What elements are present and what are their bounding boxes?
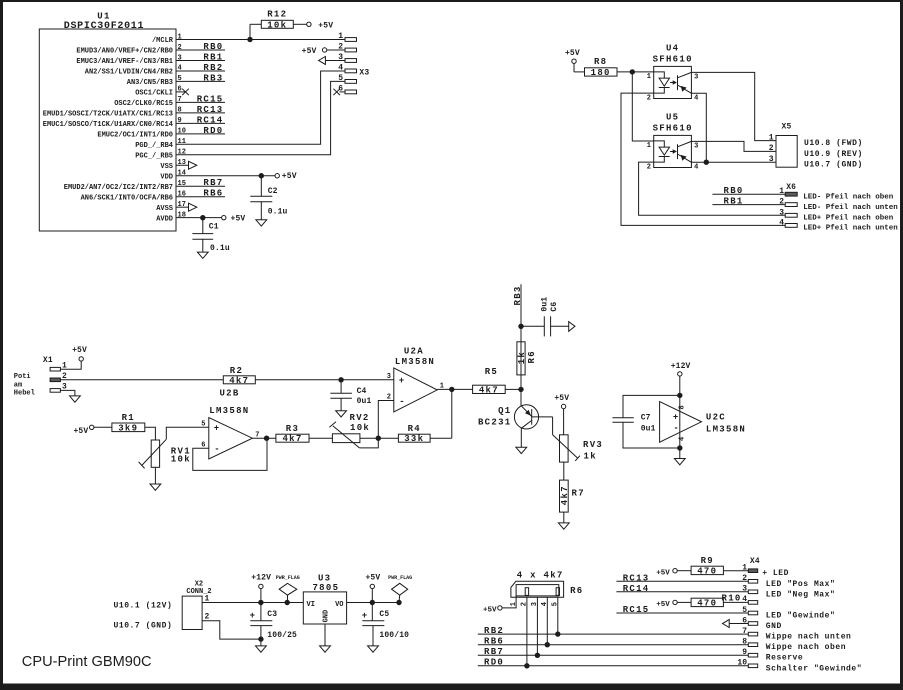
resistor R2 4k7: [223, 366, 341, 386]
ground below R7: [558, 523, 569, 529]
resistor R9 470: [691, 556, 748, 576]
svg-text:AN2/SS1/LVDIN/CN4/RB2: AN2/SS1/LVDIN/CN4/RB2: [85, 69, 173, 77]
svg-text:C4: C4: [357, 387, 367, 396]
regulator U3 7805: [303, 574, 346, 625]
svg-text:X5: X5: [782, 123, 792, 132]
svg-text:RV3: RV3: [583, 440, 603, 450]
svg-text:R1: R1: [122, 413, 135, 423]
capacitor C1 0.1u: [192, 218, 229, 254]
resistor R3 4k7: [276, 424, 333, 444]
wire U5.3 to X5.2: [691, 141, 776, 151]
title text: [22, 654, 152, 670]
+5V terminal at AVDD: [222, 214, 246, 223]
svg-text:LM358N: LM358N: [706, 425, 746, 435]
svg-text:+5V: +5V: [72, 346, 87, 355]
wire R6 to base: [520, 375, 522, 406]
svg-text:Hebel: Hebel: [14, 390, 35, 398]
svg-text:+: +: [399, 376, 404, 386]
svg-text:3: 3: [742, 585, 747, 594]
svg-text:R8: R8: [594, 57, 607, 67]
junction R2-C4: [338, 377, 343, 382]
svg-text:EMUC2/OC1/INT1/RD0: EMUC2/OC1/INT1/RD0: [97, 131, 173, 139]
svg-text:U4: U4: [666, 43, 679, 53]
net RC15 to X4.5: [616, 605, 748, 615]
+5V terminal at RV3: [554, 394, 569, 435]
svg-text:U2A: U2A: [404, 347, 424, 357]
wire U5.4 to X5.3: [691, 161, 776, 163]
svg-text:8: 8: [679, 405, 687, 409]
svg-text:10: 10: [178, 128, 186, 136]
svg-text:1: 1: [647, 73, 651, 81]
X5 pin 2: [769, 144, 774, 153]
wire U2B pin6 feedback: [193, 438, 267, 470]
svg-text:LM358N: LM358N: [209, 406, 249, 416]
svg-text:EMUC1/SOSCO/T1CK/U1ARX/CN0/RC1: EMUC1/SOSCO/T1CK/U1ARX/CN0/RC14: [43, 121, 173, 129]
connector X2 body: [182, 580, 211, 629]
svg-text:3: 3: [779, 208, 784, 217]
wire R4 to U2A out: [451, 389, 453, 438]
svg-text:R6: R6: [527, 350, 537, 363]
svg-text:EMUD2/AN7/OC2/IC2/INT2/RB7: EMUD2/AN7/OC2/IC2/INT2/RB7: [64, 184, 173, 192]
power flag PWR_FLAG 1: [276, 575, 300, 603]
net line RD0 to X4: [478, 658, 749, 668]
svg-text:U10.9 (REV): U10.9 (REV): [804, 150, 863, 159]
svg-text:RB0: RB0: [203, 42, 223, 52]
svg-text:+: +: [214, 424, 219, 434]
svg-text:13: 13: [178, 159, 186, 167]
svg-text:RB7: RB7: [484, 647, 504, 657]
svg-text:PGD_/_RB4: PGD_/_RB4: [135, 142, 173, 150]
svg-text:AN6/SCK1/INT0/OCFA/RB6: AN6/SCK1/INT0/OCFA/RB6: [81, 194, 173, 202]
svg-text:GND: GND: [766, 622, 782, 631]
capacitor C4 0u1: [330, 380, 371, 411]
svg-text:EMUC3/AN1/VREF-/CN3/RB1: EMUC3/AN1/VREF-/CN3/RB1: [76, 58, 173, 66]
U1 pin 13 VSS: [160, 159, 186, 171]
svg-text:0u1: 0u1: [357, 397, 372, 406]
svg-text:15: 15: [178, 180, 186, 188]
ground at X1.3: [60, 390, 80, 402]
svg-text:+5V: +5V: [554, 394, 569, 403]
svg-text:Q1: Q1: [498, 406, 511, 416]
svg-text:2: 2: [647, 163, 651, 171]
ground below U3: [320, 646, 331, 652]
svg-text:100/10: 100/10: [379, 631, 409, 640]
resistor network R6 4x4k7: [511, 571, 584, 598]
wire R6 pin 4 down: [546, 597, 548, 645]
R6 network pin 1 number: [510, 602, 518, 606]
svg-text:+5V: +5V: [483, 606, 497, 614]
junction C3 top: [258, 600, 263, 605]
svg-text:Wippe nach oben: Wippe nach oben: [766, 643, 846, 652]
svg-text:+5V: +5V: [656, 601, 670, 609]
junction PWR_FLAG 1: [285, 600, 290, 605]
wire Q1 collector to RV3 wiper: [553, 417, 580, 461]
wire VDD U1.14: [176, 175, 275, 177]
junction RV2-R4-U2Ainv: [376, 436, 381, 441]
net RC13 to X4.2: [616, 573, 748, 583]
optocoupler U5 SFH610: [647, 112, 699, 171]
trimmer RV2 10k: [329, 413, 378, 448]
svg-text:5: 5: [742, 606, 747, 615]
svg-text:R4: R4: [408, 424, 421, 434]
svg-text:0u1: 0u1: [541, 297, 550, 312]
svg-text:7: 7: [742, 627, 747, 636]
X3.3 port arrow: [319, 56, 345, 64]
+5V terminal bottom: [365, 574, 380, 603]
svg-text:SFH610: SFH610: [653, 54, 693, 64]
U1 pin 8 EMUD1/SOSCI/T2CK/U1ATX/CN1/RC13 net RC13: [43, 105, 225, 119]
net line RB2 to X4: [478, 626, 749, 636]
svg-text:4: 4: [742, 595, 747, 604]
capacitor C2 0.1u: [250, 176, 287, 220]
U1 pin 6 no-connect X: [176, 89, 189, 95]
ground below C2: [256, 220, 267, 226]
wire X2.2 to C3 bottom: [202, 613, 261, 640]
junction C3 bottom: [258, 636, 263, 641]
svg-text:+: +: [250, 611, 255, 621]
junction RB3-C6: [518, 324, 523, 329]
U1 pin 16 AN6/SCK1/INT0/OCFA/RB6 net RB6: [81, 189, 225, 203]
optocoupler U4 SFH610: [647, 43, 699, 102]
svg-text:6: 6: [178, 86, 182, 94]
svg-text:0.1u: 0.1u: [268, 208, 288, 217]
junction R6 pin 3: [535, 653, 540, 658]
X4 labels: [762, 569, 862, 673]
junction VDD-C2: [259, 173, 264, 178]
svg-text:+5V: +5V: [302, 47, 317, 56]
svg-text:VI: VI: [307, 601, 315, 609]
svg-text:4 x 4k7: 4 x 4k7: [517, 571, 564, 581]
svg-text:C3: C3: [267, 610, 277, 619]
X5 pin 3: [769, 155, 774, 164]
resistor R4 33k: [378, 424, 452, 444]
X2 labels: [114, 602, 173, 631]
wire U3 GND to ground: [324, 624, 326, 646]
svg-text:VDD: VDD: [160, 173, 173, 181]
svg-text:LM358N: LM358N: [395, 357, 435, 367]
svg-text:3: 3: [694, 143, 698, 151]
svg-text:X1: X1: [43, 356, 53, 365]
svg-text:OSC1/CKLI: OSC1/CKLI: [135, 90, 173, 98]
U1 pin 14 VDD: [160, 170, 186, 182]
svg-text:+5V: +5V: [318, 22, 333, 31]
svg-text:4: 4: [679, 437, 687, 441]
ground below C1: [197, 252, 208, 258]
svg-text:R12: R12: [267, 10, 287, 20]
svg-text:AVSS: AVSS: [156, 205, 173, 213]
net line RB7 to X4: [478, 647, 749, 657]
svg-text:3k9: 3k9: [118, 423, 138, 433]
svg-text:LED+ Pfeil nach unten: LED+ Pfeil nach unten: [803, 225, 898, 233]
svg-text:1k: 1k: [584, 451, 597, 461]
capacitor C5 100/10: [362, 603, 409, 646]
junction U2C V+: [677, 393, 682, 398]
U1 pin 11 PGD_/_RB4: [135, 138, 186, 150]
resistor R6 1k: [517, 342, 537, 375]
U1 pin 4 AN2/SS1/LVDIN/CN4/RB2 net RB2: [85, 63, 225, 77]
svg-text:3: 3: [387, 373, 391, 381]
svg-text:RB1: RB1: [203, 52, 223, 62]
resistor R1 3k9: [112, 413, 155, 440]
connector X5 body: [776, 123, 797, 168]
svg-text:3: 3: [769, 155, 774, 164]
svg-text:LED "Pos Max": LED "Pos Max": [766, 580, 836, 589]
svg-text:9: 9: [178, 117, 182, 125]
svg-text:Reserve: Reserve: [766, 654, 803, 663]
svg-text:4k7: 4k7: [560, 485, 570, 505]
connector X3 pads: [338, 32, 369, 94]
X5 pin 1: [769, 133, 774, 142]
svg-text:X4: X4: [750, 557, 760, 566]
svg-text:16: 16: [178, 191, 186, 199]
wire to U5 pin1: [632, 72, 653, 141]
svg-text:am: am: [14, 382, 22, 390]
svg-text:U2B: U2B: [219, 389, 239, 399]
svg-text:17: 17: [178, 201, 186, 209]
U1 pin 10 EMUC2/OC1/INT1/RD0 net RD0: [97, 126, 225, 140]
svg-text:+ LED: + LED: [762, 569, 789, 578]
svg-text:RB6: RB6: [484, 637, 504, 647]
svg-text:4: 4: [694, 95, 698, 103]
svg-text:LED+ Pfeil nach oben: LED+ Pfeil nach oben: [803, 215, 894, 223]
net line RB6 to X4: [478, 637, 749, 647]
svg-text:2: 2: [769, 144, 774, 153]
svg-text:C2: C2: [268, 187, 278, 196]
svg-text:-: -: [214, 445, 219, 455]
U1 pin 15 EMUD2/AN7/OC2/IC2/INT2/RB7 net RB7: [64, 178, 225, 192]
wire /MCLR from U1.1 to X3.1: [176, 39, 345, 41]
svg-text:SFH610: SFH610: [653, 123, 693, 133]
R6 network pin 4 number: [541, 602, 549, 606]
ground below U2C: [674, 459, 685, 465]
U1 pin 18 AVDD: [156, 211, 186, 223]
svg-text:R6: R6: [570, 586, 583, 596]
wire U3 VO to C5/flag: [347, 602, 399, 604]
svg-text:Schalter "Gewinde": Schalter "Gewinde": [766, 664, 862, 673]
svg-text:470: 470: [697, 566, 717, 576]
svg-text:10k: 10k: [350, 423, 370, 433]
svg-text:14: 14: [178, 170, 186, 178]
svg-text:OSC2/CLK0/RC15: OSC2/CLK0/RC15: [114, 100, 173, 108]
+5V terminal at R8: [565, 49, 585, 72]
U1 pin 12 PGC_/_RB5: [135, 149, 186, 161]
svg-text:1: 1: [647, 142, 651, 150]
resistor R12 10k: [250, 10, 307, 40]
wire X3.5 to U1.12 PGC: [176, 81, 345, 154]
svg-text:AVDD: AVDD: [156, 215, 173, 223]
svg-text:CPU-Print GBM90C: CPU-Print GBM90C: [22, 654, 152, 670]
U1 pin 3 EMUC3/AN1/VREF-/CN3/RB1 net RB1: [76, 52, 225, 66]
svg-text:1: 1: [742, 564, 747, 573]
junction R6 pin 5: [555, 631, 560, 636]
wire U2C power loop: [623, 395, 680, 448]
svg-text:EMUD3/AN0/VREF+/CN2/RB0: EMUD3/AN0/VREF+/CN2/RB0: [76, 48, 173, 56]
svg-text:PWR_FLAG: PWR_FLAG: [388, 575, 412, 581]
svg-text:100/25: 100/25: [267, 631, 297, 640]
svg-text:C5: C5: [379, 610, 389, 619]
wire X2.1 to U3 VI: [202, 594, 303, 603]
U1 pin 9 EMUC1/SOSCO/T1CK/U1ARX/CN0/RC14 net RC14: [43, 115, 225, 129]
svg-text:RC14: RC14: [197, 115, 224, 125]
ground below Q1: [516, 447, 527, 453]
wire U4.2 to X6.4: [621, 93, 785, 225]
svg-text:2: 2: [178, 44, 182, 52]
op-amp U2C LM358N: [660, 395, 747, 448]
junction PWR_FLAG 2: [396, 600, 401, 605]
svg-text:X6: X6: [786, 183, 796, 192]
svg-text:VO: VO: [335, 601, 343, 609]
wire U2C to ground: [679, 448, 681, 459]
svg-text:R2: R2: [230, 366, 243, 376]
svg-text:1: 1: [779, 187, 784, 196]
connector X4 pads: [737, 557, 759, 668]
U1 pin 17 AVSS port arrow: [176, 203, 197, 211]
svg-text:8: 8: [178, 107, 182, 115]
svg-text:+5V: +5V: [231, 214, 246, 223]
svg-text:4: 4: [694, 164, 698, 172]
capacitor C7 0u1: [612, 414, 655, 434]
wire X1.2 to R2: [60, 379, 223, 381]
svg-text:U3: U3: [318, 574, 331, 584]
svg-text:18: 18: [178, 211, 186, 219]
junction /MCLR-R12: [247, 37, 252, 42]
svg-text:-: -: [673, 423, 678, 433]
svg-text:8: 8: [742, 637, 747, 646]
junction C5 top: [370, 600, 375, 605]
+5V terminal at R6 pin1: [483, 596, 516, 614]
svg-text:1: 1: [178, 33, 182, 41]
transistor Q1 BC231: [478, 405, 553, 448]
svg-text:7: 7: [178, 96, 182, 104]
X3.6 no-connect X: [333, 89, 345, 95]
wire AVDD U1.18: [176, 217, 222, 219]
svg-text:RB2: RB2: [203, 63, 223, 73]
U1 pin 7 OSC2/CLK0/RC15 net RC15: [114, 94, 225, 108]
svg-text:+5V: +5V: [282, 172, 297, 181]
+5V terminal at X1.1: [60, 346, 87, 369]
op-amp U2B LM358N: [201, 389, 259, 460]
junction R6 pin 4: [545, 642, 550, 647]
svg-text:0.1u: 0.1u: [210, 244, 230, 253]
R6 network pin 2 number: [521, 602, 529, 606]
svg-text:LED "Neg Max": LED "Neg Max": [766, 590, 836, 599]
svg-text:RV2: RV2: [350, 413, 370, 423]
wire U2B output: [252, 437, 276, 439]
svg-text:4: 4: [779, 218, 784, 227]
svg-text:X3: X3: [359, 69, 369, 78]
svg-text:RC15: RC15: [197, 94, 224, 104]
IC U1 DSPIC30F2011 body: [39, 12, 176, 232]
svg-text:10k: 10k: [267, 20, 287, 30]
wire R6 pin 5 down: [557, 597, 559, 634]
svg-text:3: 3: [178, 54, 182, 62]
svg-text:U10.7 (GND): U10.7 (GND): [804, 161, 863, 170]
+12V terminal bottom: [251, 574, 271, 603]
svg-text:RD0: RD0: [203, 126, 223, 136]
svg-text:+5V: +5V: [73, 427, 88, 436]
svg-text:+: +: [362, 611, 367, 621]
svg-text:/MCLR: /MCLR: [152, 37, 174, 45]
wire R7 to ground: [563, 512, 565, 523]
ground below C4: [336, 411, 347, 417]
svg-text:2: 2: [742, 574, 747, 583]
ground below C5: [368, 646, 379, 652]
svg-text:RB6: RB6: [203, 189, 223, 199]
svg-text:PWR_FLAG: PWR_FLAG: [276, 575, 300, 581]
U1 pin 1 /MCLR: [152, 33, 182, 45]
net label RB0 to X6.1: [712, 186, 785, 196]
wire U2A output: [437, 388, 472, 390]
ground below RV1: [150, 484, 161, 490]
svg-text:+5V: +5V: [365, 574, 380, 583]
svg-text:LED- Pfeil nach unten: LED- Pfeil nach unten: [803, 204, 898, 212]
U1 pin 13 VSS port arrow: [176, 161, 197, 169]
resistor R5 4k7: [473, 367, 521, 395]
connector X1 pads: [43, 356, 67, 392]
power flag PWR_FLAG 2: [388, 575, 412, 603]
svg-text:Poti: Poti: [14, 373, 31, 381]
+5V terminal at R10: [656, 600, 691, 609]
svg-text:RC13: RC13: [197, 105, 224, 115]
resistor R8 180: [585, 57, 654, 78]
svg-text:RB7: RB7: [203, 178, 223, 188]
svg-text:10: 10: [737, 659, 747, 668]
svg-text:U10.8 (FWD): U10.8 (FWD): [804, 139, 863, 148]
wire X3.4 to U1.11 PGD: [176, 71, 345, 144]
U1 pin 5 AN3/CN5/RB3 net RB3: [127, 73, 225, 87]
svg-text:+12V: +12V: [251, 574, 271, 583]
svg-text:+5V: +5V: [565, 49, 580, 58]
svg-text:-: -: [399, 397, 404, 407]
svg-text:2: 2: [779, 198, 784, 207]
+5V terminal at R12: [307, 22, 334, 31]
svg-text:LED "Gewinde": LED "Gewinde": [766, 611, 836, 620]
svg-text:3: 3: [694, 74, 698, 82]
svg-text:R3: R3: [286, 424, 299, 434]
connector X6 pads: [779, 183, 797, 228]
op-amp U2A LM358N: [387, 347, 444, 412]
svg-text:RB1: RB1: [724, 197, 744, 207]
svg-text:C6: C6: [550, 302, 559, 312]
junction AVDD-C1: [200, 215, 205, 220]
GND port arrow at X4.6: [723, 620, 749, 628]
svg-text:5: 5: [178, 75, 182, 83]
wire R6 pin 2 down: [526, 597, 528, 666]
trimmer RV3 1k: [560, 435, 604, 462]
svg-text:PGC_/_RB5: PGC_/_RB5: [135, 152, 173, 160]
junction U4.4-U5.4: [704, 160, 709, 165]
X6 labels: [803, 194, 898, 233]
svg-text:7805: 7805: [312, 583, 339, 593]
+5V terminal at R1: [73, 425, 111, 436]
svg-text:R7: R7: [572, 489, 585, 499]
svg-text:VSS: VSS: [160, 163, 173, 171]
+5V terminal at VDD: [275, 172, 297, 181]
svg-text:R5: R5: [485, 367, 498, 377]
net RC14 to X4.3: [616, 584, 748, 594]
svg-text:470: 470: [697, 598, 717, 608]
potentiometer RV1 10k: [139, 427, 209, 468]
junction U2C V-: [677, 445, 682, 450]
svg-text:RC15: RC15: [623, 605, 650, 615]
svg-text:C7: C7: [641, 414, 651, 423]
svg-text:RD0: RD0: [484, 658, 504, 668]
svg-text:1: 1: [338, 32, 343, 41]
capacitor C6 0u1: [521, 297, 569, 337]
net label RB1 to X6.2: [712, 197, 785, 207]
svg-text:11: 11: [178, 138, 186, 146]
capacitor C3 100/25: [250, 603, 297, 641]
